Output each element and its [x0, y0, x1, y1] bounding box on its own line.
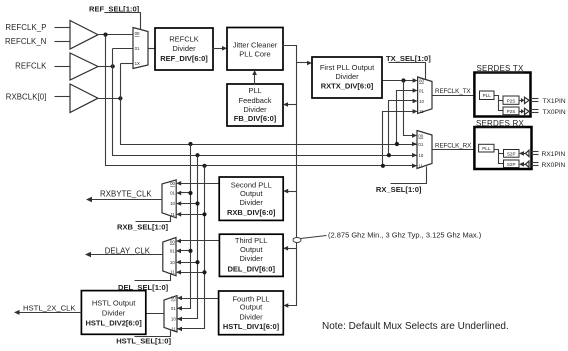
wire TX mux 01: [397, 91, 414, 145]
wire TX mux 10: [389, 101, 414, 156]
wire M6 output to HSTL divider: [146, 313, 165, 315]
arrow into RX mux 10: [412, 153, 417, 158]
junction net D: [401, 78, 405, 82]
svg-text:RX_SEL[1:0]: RX_SEL[1:0]: [376, 185, 422, 194]
divider box Third PLL Output Divider: [219, 234, 283, 276]
junction net C: [118, 96, 122, 100]
wire U3 output: [99, 98, 121, 100]
pll P1: [480, 91, 495, 100]
svg-text:HSTL_SEL[1:0]: HSTL_SEL[1:0]: [116, 337, 171, 346]
arrow into M5 10: [176, 260, 181, 265]
wire bus branch to First PLL: [297, 62, 309, 64]
svg-text:11: 11: [170, 270, 175, 275]
arrow into M6 00: [177, 296, 182, 301]
wire P2S1 out: [519, 100, 523, 102]
junction net B drop: [195, 153, 199, 157]
svg-text:P2S: P2S: [507, 98, 516, 103]
pll U4 Jitter Cleaner PLL Core: [227, 28, 283, 71]
wire net C elbow to mux 1X: [121, 63, 133, 65]
junction M5 10: [195, 260, 199, 264]
junction M5 01: [188, 249, 192, 253]
svg-text:RX1PIN: RX1PIN: [542, 151, 566, 158]
svg-text:11: 11: [419, 109, 424, 114]
mux M3 RX_SEL: [417, 131, 432, 169]
svg-text:Output: Output: [240, 189, 263, 198]
svg-text:PLL Core: PLL Core: [239, 50, 270, 59]
arrow into M4 10: [176, 201, 181, 206]
junction M5 11: [202, 270, 206, 274]
wire bus branch to FB divider: [287, 104, 297, 106]
svg-text:01: 01: [418, 142, 423, 147]
svg-text:Feedback: Feedback: [239, 96, 272, 105]
wire P2S0 out: [519, 111, 523, 113]
svg-text:REFCLK_RX: REFCLK_RX: [435, 142, 472, 149]
junction TX01 net C: [395, 142, 399, 146]
wire M4 output RXBYTE_CLK: [91, 199, 163, 201]
wire net B elbow to mux 01: [113, 48, 133, 50]
wire HSTL_2X_CLK output: [19, 312, 82, 314]
wire S2P0 in: [523, 164, 526, 166]
wire PLL to P2S: [495, 96, 503, 111]
svg-text:HSTL_2X_CLK: HSTL_2X_CLK: [23, 304, 76, 313]
svg-text:10: 10: [419, 99, 424, 104]
svg-text:Output: Output: [240, 303, 263, 312]
driver T1: [521, 98, 524, 103]
serdes box SERDES TX: [474, 73, 530, 117]
divider box Second PLL Output Divider: [219, 177, 283, 220]
arrow into M5 01: [176, 249, 181, 254]
wire bus branch to Second PLL: [288, 191, 297, 193]
junction TX10 net B: [387, 153, 391, 157]
driver T0: [521, 109, 524, 114]
arrow into Third PLL: [283, 246, 288, 251]
svg-text:1X: 1X: [135, 61, 140, 66]
arrow into TX mux 01: [413, 88, 418, 93]
svg-text:00: 00: [419, 78, 424, 83]
arrow into S2P1: [519, 151, 524, 156]
arrow into First PLL: [307, 61, 312, 66]
arrow RXBYTE_CLK: [86, 197, 92, 202]
wire bus branch to Third PLL: [288, 248, 297, 250]
junction M4 10: [195, 201, 199, 205]
svg-text:10: 10: [171, 317, 176, 322]
wire Jitter output bus: [283, 46, 297, 306]
arrow into TX mux 11: [413, 109, 418, 114]
svg-text:10: 10: [170, 201, 175, 206]
wire callout line: [301, 236, 327, 239]
svg-text:00: 00: [171, 296, 176, 301]
wire REFCLK stub: [55, 66, 71, 68]
pll P2: [479, 144, 494, 152]
wire RXB_SEL select: [136, 216, 171, 222]
arrow into TX mux 10: [413, 99, 418, 104]
svg-text:Note: Default Mux Selects are: Note: Default Mux Selects are Underlined…: [322, 321, 509, 332]
svg-text:RXTX_DIV[6:0]: RXTX_DIV[6:0]: [321, 82, 374, 91]
svg-text:(2.875 Ghz Min., 3 Ghz Typ., 3: (2.875 Ghz Min., 3 Ghz Typ., 3.125 Ghz M…: [328, 231, 482, 240]
wire M5 output DELAY_CLK: [90, 254, 163, 256]
serdes box SERDES RX: [474, 127, 531, 169]
wire net C to M4 01: [181, 192, 191, 194]
wire Third PLL out to M5 00: [181, 240, 220, 242]
svg-text:HSTL Output: HSTL Output: [92, 299, 136, 308]
arrow into M6 11: [177, 327, 182, 332]
arrow bus into Fourth PLL: [283, 303, 288, 308]
arrow into TX mux 00: [413, 78, 418, 83]
svg-text:FB_DIV[6:0]: FB_DIV[6:0]: [234, 114, 277, 123]
junction net A: [103, 33, 107, 37]
divider box First PLL Output Divider: [312, 57, 382, 98]
wire RXBCLK[0] stub: [55, 96, 71, 98]
svg-text:Third PLL: Third PLL: [235, 236, 268, 245]
divider box Fourth PLL Output Divider: [219, 291, 284, 335]
arrow into M5 00: [176, 239, 181, 244]
svg-text:01: 01: [170, 191, 175, 196]
svg-text:PLL: PLL: [482, 146, 491, 151]
wire REFCLK_N stub: [55, 41, 71, 43]
wire S2P1 in: [523, 153, 526, 155]
svg-text:RXBCLK[0]: RXBCLK[0]: [6, 92, 47, 101]
arrow DELAY_CLK: [85, 252, 91, 257]
svg-text:S2P: S2P: [507, 151, 516, 156]
wire U2 output: [99, 66, 113, 68]
arrow into RX mux 01: [412, 142, 417, 147]
divider box REFCLK Divider: [155, 28, 213, 70]
wire REFCLK_P stub: [55, 27, 71, 29]
converter S2P 0: [504, 160, 520, 168]
arrow into M6 10: [177, 317, 182, 322]
wire TX_SEL select: [389, 63, 426, 80]
junction TX11 net A: [381, 164, 385, 168]
wire PLL to P2S1: [499, 100, 503, 102]
svg-text:REFCLK_P: REFCLK_P: [5, 23, 46, 32]
wire net B to M5 10: [181, 262, 198, 264]
arrow into M4 00: [176, 181, 181, 186]
svg-text:REF_DIV[6:0]: REF_DIV[6:0]: [160, 54, 208, 63]
svg-text:REFCLK: REFCLK: [169, 34, 199, 43]
buffer U1 differential input: [70, 21, 98, 50]
wire PLL to S2P1: [499, 153, 504, 155]
svg-text:HSTL_DIV2[6:0]: HSTL_DIV2[6:0]: [85, 319, 142, 328]
mux M2 TX_SEL: [418, 77, 432, 113]
junction M4 11: [202, 212, 206, 216]
wire REFCLK Divider to Jitter: [213, 48, 223, 50]
wire DEL_SEL select: [135, 275, 171, 281]
svg-text:Divider: Divider: [240, 254, 264, 263]
svg-text:REFCLK: REFCLK: [15, 61, 47, 70]
wire TX mux output REFCLK_TX: [433, 95, 475, 97]
wire First PLL out to TX mux: [383, 80, 414, 82]
arrow into M4 11: [176, 212, 181, 217]
wire net A to M4 11: [181, 214, 205, 216]
junction net C drop: [188, 142, 192, 146]
receiver R1: [526, 150, 530, 156]
converter S2P 1: [504, 150, 520, 158]
svg-text:RX0PIN: RX0PIN: [542, 162, 566, 169]
wire net C drop vertical: [177, 145, 191, 309]
wire TX1 pair: [531, 98, 539, 100]
wire REF_SEL select: [105, 13, 141, 30]
svg-text:Divider: Divider: [240, 198, 264, 207]
arrow into M4 01: [176, 191, 181, 196]
svg-text:HSTL_DIV1[6:0]: HSTL_DIV1[6:0]: [223, 322, 280, 331]
svg-text:RXBYTE_CLK: RXBYTE_CLK: [100, 189, 152, 198]
svg-text:REFCLK_N: REFCLK_N: [5, 37, 47, 46]
wire TX0 pair: [531, 109, 539, 111]
svg-text:S2P: S2P: [507, 162, 516, 167]
converter P2S 0: [503, 107, 519, 115]
svg-text:RXB_SEL[1:0]: RXB_SEL[1:0]: [117, 223, 169, 232]
wire FB to Jitter: [254, 75, 256, 85]
buffer U2 REFCLK input: [70, 53, 98, 80]
wire net B drop vertical: [177, 156, 198, 319]
arrow into M5 11: [176, 270, 181, 275]
svg-text:TX0PIN: TX0PIN: [543, 109, 566, 116]
wire TX mux 11: [383, 112, 414, 166]
svg-text:Divider: Divider: [102, 309, 126, 318]
svg-text:01: 01: [135, 46, 140, 51]
divider box PLL Feedback Divider: [227, 84, 283, 126]
node VCO frequency ellipse: [293, 238, 301, 243]
junction net B: [111, 64, 115, 68]
svg-text:00: 00: [418, 133, 423, 138]
svg-text:SERDES TX: SERDES TX: [477, 64, 524, 73]
svg-text:01: 01: [170, 249, 175, 254]
arrow FB into Jitter: [252, 70, 257, 75]
svg-text:00: 00: [170, 181, 175, 186]
wire RX0 pair: [532, 162, 539, 164]
wire net A to M5 11: [181, 272, 205, 274]
wire net A drop vertical: [177, 166, 205, 329]
svg-text:TX_SEL[1:0]: TX_SEL[1:0]: [386, 54, 431, 63]
arrow into RX mux 11: [412, 164, 417, 169]
junction net A drop: [202, 164, 206, 168]
svg-text:01: 01: [419, 88, 424, 93]
wire net A vertical: [106, 35, 417, 166]
arrow into RX mux 00: [412, 133, 417, 138]
wire net B to M4 10: [181, 203, 198, 205]
arrow into Second PLL: [283, 189, 288, 194]
svg-text:Output: Output: [240, 245, 263, 254]
divider box HSTL Output Divider: [81, 291, 145, 335]
wire net D to RX mux 00: [404, 81, 413, 136]
svg-text:SERDES RX: SERDES RX: [476, 119, 524, 128]
svg-text:PLL: PLL: [483, 93, 492, 98]
svg-text:11: 11: [171, 327, 176, 332]
svg-text:RXB_DIV[6:0]: RXB_DIV[6:0]: [227, 208, 276, 217]
svg-text:First PLL Output: First PLL Output: [320, 63, 375, 72]
svg-text:10: 10: [418, 153, 423, 158]
svg-text:Divider: Divider: [243, 105, 267, 114]
svg-text:P2S: P2S: [507, 109, 516, 114]
svg-text:DELAY_CLK: DELAY_CLK: [105, 246, 151, 255]
mux M5 DEL_SEL: [163, 238, 176, 276]
svg-text:01: 01: [171, 306, 176, 311]
wire net C to M5 01: [181, 250, 191, 252]
svg-text:11: 11: [418, 164, 423, 169]
mux M1 REF_SEL: [133, 28, 148, 69]
wire HSTL_SEL select: [135, 331, 171, 337]
svg-text:00: 00: [135, 31, 140, 36]
wire M1 output: [149, 48, 155, 50]
svg-text:TX1PIN: TX1PIN: [543, 98, 566, 105]
mux M6 HSTL_SEL: [164, 296, 177, 332]
svg-text:Divider: Divider: [172, 44, 196, 53]
mux M4 RXB_SEL: [162, 180, 176, 218]
arrow into FB divider: [283, 102, 288, 107]
wire U1 output to mux 00: [99, 34, 133, 36]
arrow into M6 01: [177, 306, 182, 311]
wire net B vertical and horizontal: [113, 49, 417, 156]
svg-text:11: 11: [170, 212, 175, 217]
receiver R0: [526, 161, 530, 167]
buffer U3 RXBCLK input: [70, 84, 98, 113]
wire PLL to S2P: [495, 150, 504, 164]
svg-text:Jitter Cleaner: Jitter Cleaner: [233, 41, 278, 50]
arrow into Jitter: [222, 46, 227, 51]
svg-text:PLL: PLL: [248, 86, 261, 95]
wire Fourth PLL out to M6 00: [181, 298, 219, 300]
converter P2S 1: [503, 96, 519, 104]
wire RX_SEL select: [391, 167, 427, 184]
wire RX mux output REFCLK_RX: [433, 149, 475, 151]
junction M4 01: [188, 191, 192, 195]
svg-text:Divider: Divider: [239, 312, 263, 321]
arrow into S2P0: [519, 162, 524, 167]
svg-text:00: 00: [170, 239, 175, 244]
wire RX1 pair: [532, 151, 539, 153]
svg-text:10: 10: [170, 260, 175, 265]
wire net C vertical and horizontal: [121, 64, 417, 145]
svg-text:DEL_DIV[6:0]: DEL_DIV[6:0]: [227, 265, 275, 274]
arrow HSTL_2X_CLK: [14, 310, 20, 315]
svg-text:REFCLK_TX: REFCLK_TX: [435, 88, 471, 95]
svg-text:Divider: Divider: [335, 72, 359, 81]
wire Second PLL out to M4 00: [181, 183, 220, 185]
